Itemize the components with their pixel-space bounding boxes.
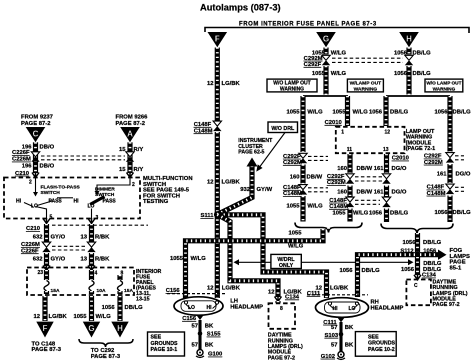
svg-text:PAGE 10-2: PAGE 10-2 bbox=[368, 347, 395, 353]
svg-text:PAGE 87-3: PAGE 87-3 bbox=[91, 354, 121, 360]
svg-text:DB/W: DB/W bbox=[357, 190, 373, 196]
svg-text:C226M: C226M bbox=[12, 157, 31, 163]
svg-text:F: F bbox=[43, 324, 48, 333]
svg-text:C156: C156 bbox=[166, 288, 181, 294]
svg-text:12: 12 bbox=[33, 314, 40, 320]
svg-text:W/O DRL: W/O DRL bbox=[271, 126, 295, 132]
svg-text:SEE: SEE bbox=[368, 334, 379, 340]
svg-text:C134: C134 bbox=[422, 273, 437, 279]
svg-text:C226F: C226F bbox=[21, 248, 39, 254]
svg-text:W/O LAMP OUT: W/O LAMP OUT bbox=[426, 81, 461, 86]
svg-text:GY/O: GY/O bbox=[51, 234, 66, 240]
svg-text:C210: C210 bbox=[15, 171, 30, 177]
svg-text:DB/LG: DB/LG bbox=[390, 110, 409, 116]
svg-text:SWITCH: SWITCH bbox=[41, 190, 61, 196]
svg-text:DB/LG: DB/LG bbox=[413, 50, 432, 56]
svg-text:R/BK: R/BK bbox=[95, 257, 110, 263]
svg-text:932: 932 bbox=[240, 187, 251, 193]
svg-text:12: 12 bbox=[207, 180, 214, 186]
svg-text:1056: 1056 bbox=[394, 50, 408, 56]
svg-text:W/LG: W/LG bbox=[307, 110, 323, 116]
svg-text:(PAGE 72-1: (PAGE 72-1 bbox=[406, 146, 436, 152]
svg-text:1055: 1055 bbox=[332, 110, 346, 116]
svg-text:LG/BK: LG/BK bbox=[330, 285, 349, 291]
svg-text:LO: LO bbox=[349, 306, 356, 312]
svg-text:DB/W: DB/W bbox=[357, 166, 373, 172]
svg-text:W/LG: W/LG bbox=[307, 203, 323, 209]
svg-text:C2010: C2010 bbox=[325, 120, 343, 126]
svg-text:15: 15 bbox=[119, 147, 126, 153]
svg-text:DB/LG: DB/LG bbox=[453, 110, 472, 116]
svg-text:160: 160 bbox=[337, 166, 348, 172]
svg-text:W/LG: W/LG bbox=[191, 256, 207, 262]
svg-text:15A: 15A bbox=[51, 288, 60, 294]
svg-text:4: 4 bbox=[95, 271, 98, 277]
svg-text:ONLY: ONLY bbox=[279, 263, 294, 269]
svg-text:13: 13 bbox=[383, 147, 389, 153]
svg-text:12: 12 bbox=[384, 130, 390, 136]
svg-text:13: 13 bbox=[80, 257, 87, 263]
svg-text:57: 57 bbox=[191, 323, 198, 329]
svg-text:1056: 1056 bbox=[401, 267, 415, 273]
svg-text:1056: 1056 bbox=[369, 211, 383, 217]
svg-text:C148F: C148F bbox=[194, 122, 212, 128]
svg-text:C148M: C148M bbox=[283, 191, 302, 197]
svg-text:W/LG: W/LG bbox=[331, 50, 347, 56]
svg-text:1055: 1055 bbox=[286, 203, 300, 209]
svg-text:160: 160 bbox=[337, 190, 348, 196]
svg-text:C148M: C148M bbox=[427, 191, 446, 197]
svg-text:13-15: 13-15 bbox=[136, 296, 150, 302]
svg-text:G100: G100 bbox=[208, 352, 223, 358]
svg-text:1056: 1056 bbox=[434, 210, 448, 216]
svg-text:R/BK: R/BK bbox=[95, 234, 110, 240]
svg-text:GY/O: GY/O bbox=[51, 257, 66, 263]
svg-text:DG/O: DG/O bbox=[456, 171, 471, 177]
svg-text:C148M: C148M bbox=[329, 204, 348, 210]
svg-text:1055: 1055 bbox=[73, 314, 87, 320]
svg-text:F: F bbox=[215, 34, 220, 43]
svg-text:C292F: C292F bbox=[304, 62, 322, 68]
svg-text:C148F: C148F bbox=[329, 198, 347, 204]
svg-text:G: G bbox=[88, 324, 94, 333]
svg-text:1056: 1056 bbox=[102, 305, 116, 311]
svg-text:1055: 1055 bbox=[312, 71, 326, 77]
svg-text:1055: 1055 bbox=[332, 211, 346, 217]
svg-text:HEADLAMP: HEADLAMP bbox=[230, 305, 263, 311]
svg-text:1056: 1056 bbox=[339, 268, 353, 274]
svg-text:W/LG: W/LG bbox=[96, 314, 112, 320]
svg-text:DB/LG: DB/LG bbox=[125, 305, 144, 311]
svg-text:PAGE 10-1: PAGE 10-1 bbox=[151, 347, 178, 353]
svg-text:FLASH-TO-PASS: FLASH-TO-PASS bbox=[41, 185, 81, 191]
svg-text:12: 12 bbox=[268, 289, 275, 295]
svg-text:W/LG: W/LG bbox=[353, 211, 369, 217]
svg-text:1056: 1056 bbox=[394, 71, 408, 77]
svg-text:PAGE 62-5: PAGE 62-5 bbox=[238, 150, 264, 156]
svg-text:C148F: C148F bbox=[283, 185, 301, 191]
svg-text:8: 8 bbox=[280, 306, 283, 312]
svg-text:2: 2 bbox=[29, 180, 32, 186]
svg-text:FROM 9266: FROM 9266 bbox=[116, 115, 149, 121]
svg-text:1055: 1055 bbox=[288, 231, 302, 237]
svg-text:G102: G102 bbox=[321, 354, 336, 360]
svg-text:1056: 1056 bbox=[402, 240, 416, 246]
svg-text:WARNING: WARNING bbox=[433, 86, 456, 91]
svg-text:10A: 10A bbox=[97, 288, 106, 294]
svg-text:C226F: C226F bbox=[12, 150, 30, 156]
svg-text:C2010: C2010 bbox=[392, 156, 410, 162]
svg-text:C292F: C292F bbox=[424, 154, 442, 160]
svg-text:S111: S111 bbox=[200, 213, 214, 219]
svg-text:GROUNDS: GROUNDS bbox=[151, 341, 179, 347]
svg-text:23: 23 bbox=[37, 270, 43, 276]
svg-text:C292M: C292M bbox=[327, 180, 346, 186]
svg-text:3: 3 bbox=[96, 215, 99, 221]
svg-text:RH: RH bbox=[371, 299, 379, 305]
svg-text:DB/W: DB/W bbox=[307, 174, 323, 180]
svg-text:C: C bbox=[414, 283, 418, 289]
svg-text:GROUNDS: GROUNDS bbox=[368, 341, 396, 347]
svg-text:C292M: C292M bbox=[283, 160, 302, 166]
svg-text:LG/BK: LG/BK bbox=[222, 81, 241, 87]
svg-text:57: 57 bbox=[331, 325, 338, 331]
svg-text:12: 12 bbox=[207, 81, 214, 87]
svg-text:SEE: SEE bbox=[151, 335, 162, 341]
svg-text:DB/O: DB/O bbox=[40, 164, 55, 170]
svg-text:W/LAMP OUT: W/LAMP OUT bbox=[350, 81, 381, 87]
svg-text:DB/LG: DB/LG bbox=[423, 261, 442, 267]
svg-text:C134: C134 bbox=[285, 295, 300, 301]
svg-text:160: 160 bbox=[290, 174, 301, 180]
svg-text:C: C bbox=[33, 129, 39, 138]
svg-text:R/Y: R/Y bbox=[134, 147, 144, 153]
svg-text:PAGE 97-2: PAGE 97-2 bbox=[268, 355, 295, 361]
svg-text:196: 196 bbox=[22, 164, 33, 170]
svg-text:11: 11 bbox=[347, 147, 353, 153]
svg-text:C292F: C292F bbox=[327, 174, 345, 180]
svg-text:H: H bbox=[406, 34, 412, 43]
svg-text:BK: BK bbox=[345, 343, 354, 349]
svg-text:HI: HI bbox=[207, 305, 213, 311]
svg-text:57: 57 bbox=[331, 343, 338, 349]
svg-text:196: 196 bbox=[22, 144, 33, 150]
svg-text:DB/O: DB/O bbox=[40, 144, 55, 150]
svg-text:LG/BK: LG/BK bbox=[222, 286, 241, 292]
svg-text:HI: HI bbox=[74, 199, 80, 205]
svg-text:PAGE 87-2: PAGE 87-2 bbox=[21, 121, 51, 127]
svg-text:C226M: C226M bbox=[21, 242, 40, 248]
svg-text:161: 161 bbox=[374, 166, 385, 172]
svg-text:DB/LG: DB/LG bbox=[423, 240, 442, 246]
svg-text:1056: 1056 bbox=[434, 110, 448, 116]
svg-text:LH: LH bbox=[230, 298, 238, 304]
svg-text:WARNING: WARNING bbox=[280, 86, 304, 92]
svg-text:85-1: 85-1 bbox=[450, 265, 462, 271]
svg-text:TESTING: TESTING bbox=[143, 199, 169, 205]
svg-text:C292M: C292M bbox=[304, 56, 323, 62]
svg-text:C156: C156 bbox=[182, 316, 197, 322]
svg-text:G: G bbox=[323, 34, 329, 43]
svg-text:BK: BK bbox=[345, 325, 354, 331]
svg-text:C292M: C292M bbox=[424, 160, 443, 166]
svg-text:15: 15 bbox=[119, 167, 126, 173]
svg-text:15A: 15A bbox=[124, 288, 133, 294]
svg-text:57: 57 bbox=[191, 342, 198, 348]
svg-text:DB/LG: DB/LG bbox=[413, 71, 432, 77]
svg-text:Autolamps (087-3): Autolamps (087-3) bbox=[200, 3, 281, 13]
svg-text:S155: S155 bbox=[207, 332, 221, 338]
svg-text:1055: 1055 bbox=[286, 110, 300, 116]
svg-text:PASS: PASS bbox=[103, 199, 117, 205]
svg-text:1055: 1055 bbox=[312, 50, 326, 56]
svg-text:DB/LG: DB/LG bbox=[362, 268, 381, 274]
svg-text:DG/O: DG/O bbox=[392, 166, 407, 172]
svg-text:WARNING: WARNING bbox=[354, 86, 378, 92]
svg-text:DB/LG: DB/LG bbox=[453, 210, 472, 216]
svg-text:1055: 1055 bbox=[170, 256, 184, 262]
svg-text:W/LG: W/LG bbox=[288, 244, 304, 250]
svg-text:C111: C111 bbox=[307, 291, 321, 297]
svg-text:13: 13 bbox=[80, 234, 87, 240]
svg-text:1056: 1056 bbox=[369, 110, 383, 116]
svg-text:C210: C210 bbox=[26, 226, 41, 232]
svg-text:C292F: C292F bbox=[283, 154, 301, 160]
svg-text:1: 1 bbox=[341, 130, 344, 136]
svg-text:632: 632 bbox=[33, 234, 44, 240]
svg-text:FROM 9237: FROM 9237 bbox=[21, 115, 53, 121]
svg-text:BK: BK bbox=[205, 342, 214, 348]
svg-text:12: 12 bbox=[207, 286, 214, 292]
svg-text:HEADLAMP: HEADLAMP bbox=[371, 306, 404, 312]
svg-text:C148M: C148M bbox=[194, 128, 213, 134]
svg-text:DG/O: DG/O bbox=[392, 190, 407, 196]
svg-text:632: 632 bbox=[33, 257, 44, 263]
svg-text:PAGE 87-3: PAGE 87-3 bbox=[32, 347, 62, 353]
svg-text:R/Y: R/Y bbox=[134, 167, 144, 173]
svg-text:LG/BK: LG/BK bbox=[222, 180, 241, 186]
svg-text:GY/W: GY/W bbox=[257, 187, 273, 193]
svg-text:161: 161 bbox=[437, 171, 448, 177]
svg-text:PAGE 97-2: PAGE 97-2 bbox=[433, 302, 460, 308]
svg-text:A: A bbox=[127, 129, 133, 138]
svg-text:FROM INTERIOR FUSE PANEL PAGE: FROM INTERIOR FUSE PANEL PAGE 87-3 bbox=[239, 21, 377, 27]
svg-text:PAGE 87-2: PAGE 87-2 bbox=[116, 121, 146, 127]
svg-text:H: H bbox=[117, 324, 123, 333]
svg-text:BK: BK bbox=[205, 323, 214, 329]
svg-text:LG/BK: LG/BK bbox=[49, 314, 68, 320]
svg-text:W/LG: W/LG bbox=[331, 71, 347, 77]
svg-text:DB/LG: DB/LG bbox=[390, 211, 409, 217]
svg-text:C148F: C148F bbox=[427, 185, 445, 191]
svg-text:W/LG: W/LG bbox=[353, 110, 369, 116]
svg-text:HI: HI bbox=[16, 199, 22, 205]
svg-text:2: 2 bbox=[132, 182, 135, 188]
svg-text:161: 161 bbox=[374, 190, 385, 196]
svg-text:S103: S103 bbox=[325, 333, 339, 339]
